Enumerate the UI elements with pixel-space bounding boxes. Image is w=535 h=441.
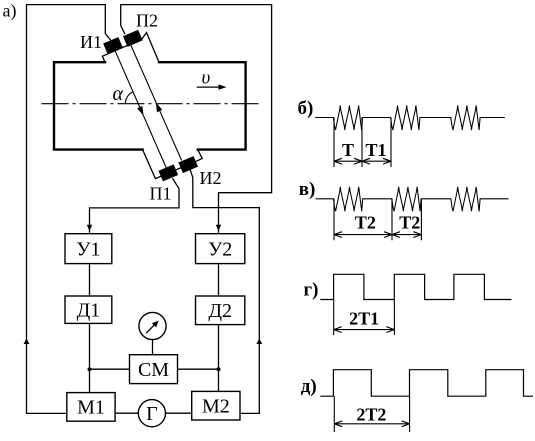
beam line 2 (P2 to I2) <box>130 43 182 160</box>
arrow up on M1-I1 wire <box>24 339 30 345</box>
waveform d square <box>320 370 533 397</box>
dimension verticals d <box>334 396 409 432</box>
velocity arrow <box>197 86 224 88</box>
svg-text:T2: T2 <box>355 213 376 233</box>
dimension verticals v <box>334 199 421 241</box>
wire SM right <box>178 368 219 370</box>
block SM <box>130 355 178 384</box>
junction dot right <box>217 367 221 371</box>
meter circle <box>139 312 166 339</box>
wire U1-D1 <box>89 264 91 296</box>
transducer P2 <box>123 30 143 47</box>
pipe top collar notch <box>102 33 159 63</box>
block D2 <box>196 296 245 325</box>
svg-text:У1: У1 <box>76 239 100 261</box>
block D1 <box>65 296 112 323</box>
centerline dash-dot <box>42 103 260 105</box>
svg-text:а): а) <box>3 1 17 22</box>
svg-text:2T2: 2T2 <box>356 405 386 425</box>
arrow up on I2-M2 wire <box>256 339 262 345</box>
svg-text:б): б) <box>298 98 314 119</box>
svg-text:2T1: 2T1 <box>349 309 379 329</box>
svg-text:Д1: Д1 <box>77 300 101 322</box>
beam arrow up <box>156 102 162 112</box>
transducer I2 <box>178 156 198 173</box>
wire U2-D2 <box>218 264 220 296</box>
transducer P1 <box>158 164 178 181</box>
block U1 <box>65 234 112 264</box>
transducer I1 <box>103 37 123 54</box>
block M2 <box>192 391 240 420</box>
waveform g square <box>320 274 511 299</box>
wire P2 to U2 <box>121 5 272 233</box>
wire P1 to U1 <box>90 178 180 233</box>
waveform v <box>316 187 509 212</box>
svg-text:д): д) <box>301 376 317 397</box>
svg-text:СМ: СМ <box>138 359 169 381</box>
block U2 <box>196 234 245 264</box>
svg-text:У2: У2 <box>208 239 232 261</box>
svg-text:И2: И2 <box>200 168 222 188</box>
beam line 1 (I1 to P1) <box>115 50 167 168</box>
svg-text:в): в) <box>299 179 316 200</box>
meter needle <box>146 323 156 333</box>
wire SM left <box>90 368 130 370</box>
pipe bottom collar notch <box>143 150 203 179</box>
svg-text:α: α <box>113 83 124 105</box>
wire M1 to I1 outer loop <box>27 5 112 414</box>
block M1 <box>67 393 115 422</box>
svg-text:П2: П2 <box>136 11 158 31</box>
generator G circle <box>138 400 165 427</box>
svg-text:Г: Г <box>146 403 158 425</box>
dimension arrow line d <box>334 423 409 425</box>
wire D2-M2 <box>218 325 220 392</box>
alpha arc <box>125 92 133 104</box>
pipe body <box>54 62 246 149</box>
svg-text:υ: υ <box>202 68 211 89</box>
wire G-M2 <box>166 412 192 414</box>
junction dot left <box>88 367 92 371</box>
svg-text:T1: T1 <box>365 140 386 160</box>
svg-text:М1: М1 <box>77 397 105 419</box>
dimension verticals g <box>334 300 395 336</box>
svg-text:г): г) <box>304 280 319 301</box>
dimension arrow line g <box>334 329 395 331</box>
svg-text:М2: М2 <box>202 396 230 418</box>
wire M1-G <box>115 412 138 414</box>
waveform b <box>315 106 505 131</box>
svg-text:Д2: Д2 <box>208 300 232 322</box>
dimension arrow line b <box>334 160 391 162</box>
svg-text:И1: И1 <box>80 32 102 52</box>
svg-text:T2: T2 <box>399 213 420 233</box>
svg-text:T: T <box>342 140 354 160</box>
beam arrow down <box>137 106 143 116</box>
svg-text:П1: П1 <box>150 184 172 204</box>
arrow into U2 <box>216 225 221 231</box>
meter stem <box>152 340 154 355</box>
dimension verticals b <box>334 118 391 168</box>
wire I2 to M2 <box>190 170 259 414</box>
wire D1-M1 <box>89 323 91 392</box>
dimension arrow line v <box>334 234 421 236</box>
arrow into U1 <box>87 225 92 231</box>
